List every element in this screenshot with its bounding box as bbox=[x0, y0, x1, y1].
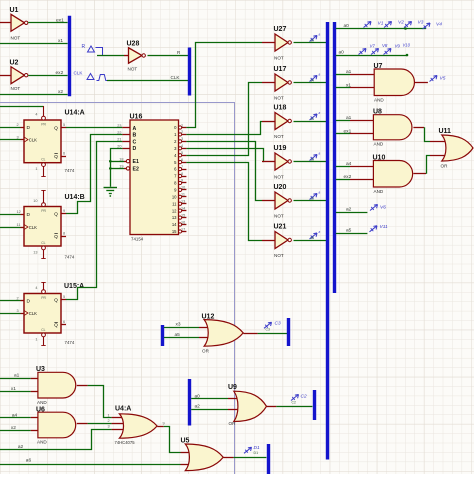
wire a2 right bbox=[336, 212, 368, 214]
wire R to U28 bbox=[97, 55, 129, 57]
svg-text:Q: Q bbox=[54, 126, 58, 132]
wire a0 second bbox=[336, 55, 407, 57]
svg-text:10: 10 bbox=[33, 199, 37, 203]
or-gate U5 bbox=[181, 438, 224, 471]
and-gate U7 bbox=[374, 63, 415, 103]
svg-text:14: 14 bbox=[172, 222, 177, 227]
wire a1 to U8 bbox=[336, 120, 374, 122]
svg-text:21: 21 bbox=[117, 138, 121, 142]
svg-text:a: a bbox=[319, 190, 321, 194]
net label ex1 bbox=[56, 18, 64, 24]
svg-text:CLK: CLK bbox=[171, 75, 181, 80]
svg-text:11: 11 bbox=[17, 223, 21, 227]
or-gate U9 bbox=[228, 384, 267, 426]
wire x1 to U7 bbox=[336, 87, 374, 89]
wire a4 bottom bbox=[0, 417, 38, 419]
net label x1 U7 bbox=[346, 82, 351, 88]
waveform symbol CLK trigger bbox=[87, 74, 94, 80]
svg-text:x1: x1 bbox=[58, 38, 63, 44]
svg-text:5: 5 bbox=[181, 151, 183, 155]
svg-text:2: 2 bbox=[181, 130, 183, 134]
svg-text:R: R bbox=[82, 44, 86, 50]
net label x2 top bbox=[58, 89, 63, 95]
net label CLK at bus bbox=[171, 75, 181, 80]
svg-text:U7: U7 bbox=[374, 63, 383, 70]
svg-text:AND: AND bbox=[37, 440, 47, 445]
svg-text:Q: Q bbox=[54, 211, 58, 217]
probe D1 bbox=[244, 445, 260, 455]
svg-text:a2: a2 bbox=[346, 207, 352, 213]
wire ex2 U2 output bbox=[28, 75, 67, 77]
svg-text:6: 6 bbox=[181, 158, 183, 162]
svg-text:s3: s3 bbox=[311, 158, 315, 162]
svg-text:U15:A: U15:A bbox=[64, 283, 84, 290]
wire a2 to U9 bbox=[191, 409, 242, 411]
wire U27 output to bus bbox=[294, 42, 327, 44]
junction a0 second bbox=[406, 54, 409, 57]
wire U12 output bbox=[243, 333, 287, 335]
probe V1 bbox=[364, 20, 384, 27]
svg-text:12: 12 bbox=[172, 208, 177, 213]
svg-text:4: 4 bbox=[35, 286, 37, 290]
ground symbol bbox=[104, 188, 118, 197]
svg-text:7474: 7474 bbox=[65, 168, 75, 173]
inverter U17 bbox=[274, 66, 292, 100]
svg-text:8: 8 bbox=[63, 231, 65, 235]
net label x3 bbox=[176, 322, 181, 328]
probe V4 bbox=[423, 21, 443, 29]
svg-text:AND: AND bbox=[37, 400, 47, 405]
svg-text:U9: U9 bbox=[228, 384, 237, 391]
wire ex1 U1 output bbox=[28, 22, 67, 24]
flip-flop U15:A bbox=[17, 282, 85, 346]
svg-text:4: 4 bbox=[35, 113, 37, 117]
svg-text:a5: a5 bbox=[346, 228, 352, 234]
wire U21 output to bus bbox=[294, 240, 327, 242]
inverter U2 bbox=[10, 60, 28, 91]
svg-text:18: 18 bbox=[119, 157, 123, 161]
wire out5 to U21 bbox=[186, 163, 275, 241]
svg-text:D1: D1 bbox=[254, 451, 259, 455]
svg-text:17: 17 bbox=[181, 227, 185, 231]
probe V8 bbox=[371, 43, 388, 55]
wire a1 bottom bbox=[0, 378, 38, 380]
net label a2 right bbox=[346, 207, 352, 213]
svg-text:V11: V11 bbox=[380, 224, 389, 230]
svg-text:a0: a0 bbox=[339, 50, 345, 56]
net label a4 U10 bbox=[346, 161, 352, 167]
svg-text:22: 22 bbox=[117, 131, 121, 135]
waveform CLK pulse bbox=[97, 75, 109, 81]
svg-text:U17: U17 bbox=[274, 66, 287, 73]
wire x1 bottom bbox=[0, 391, 38, 393]
wire U14:A Q to U16 A bbox=[66, 127, 122, 129]
svg-text:a: a bbox=[319, 111, 321, 115]
svg-text:x1: x1 bbox=[346, 82, 351, 88]
inverter U1 bbox=[10, 7, 28, 40]
svg-text:Q: Q bbox=[54, 234, 58, 240]
svg-text:4: 4 bbox=[181, 144, 183, 148]
svg-text:V8: V8 bbox=[382, 43, 388, 48]
inverter U21 bbox=[274, 224, 292, 258]
svg-text:C3: C3 bbox=[266, 328, 270, 332]
svg-text:ex2: ex2 bbox=[344, 174, 352, 180]
wire U14:A D input bbox=[0, 127, 21, 129]
probe V7 bbox=[359, 44, 376, 55]
demultiplexer U16 74154 bbox=[117, 114, 186, 242]
probe on U19 output bbox=[310, 151, 321, 161]
probe V9 bbox=[384, 43, 401, 54]
svg-text:U14:A: U14:A bbox=[65, 110, 85, 117]
svg-text:V9: V9 bbox=[395, 43, 401, 48]
net label x2 bottom bbox=[11, 425, 16, 431]
net label x1 bottom bbox=[11, 386, 16, 392]
probe V10 bbox=[403, 43, 411, 48]
svg-text:PR: PR bbox=[41, 122, 46, 126]
wire U9 output bbox=[267, 406, 313, 408]
svg-text:7474: 7474 bbox=[65, 340, 75, 345]
svg-text:U4:A: U4:A bbox=[115, 406, 131, 413]
svg-text:a2: a2 bbox=[18, 444, 24, 450]
or-gate U4:A bbox=[108, 406, 165, 446]
svg-text:U21: U21 bbox=[274, 224, 287, 231]
svg-text:U2: U2 bbox=[10, 60, 19, 67]
probe V6 bbox=[370, 205, 386, 211]
wire E2 bbox=[110, 168, 124, 170]
wire a0 first bbox=[336, 28, 426, 30]
svg-text:U8: U8 bbox=[373, 108, 382, 115]
svg-text:13: 13 bbox=[181, 200, 185, 204]
svg-text:9: 9 bbox=[181, 179, 183, 183]
and-gate U8 bbox=[373, 108, 412, 146]
wire U19 output to bus bbox=[294, 161, 327, 163]
net label ex2 U10 bbox=[344, 174, 352, 180]
or-gate U11 bbox=[439, 128, 474, 169]
net label R source bbox=[82, 44, 86, 50]
wire U6 output to U4 bbox=[77, 423, 126, 425]
svg-text:7474: 7474 bbox=[65, 254, 75, 259]
wire out2 to U20 bbox=[186, 142, 275, 201]
inverter U28 bbox=[127, 41, 146, 72]
junction E2 bbox=[109, 167, 112, 170]
probe C3 bbox=[264, 321, 281, 332]
svg-text:s1: s1 bbox=[311, 117, 315, 121]
svg-text:A: A bbox=[133, 126, 137, 132]
svg-text:s5: s5 bbox=[311, 236, 315, 240]
svg-text:x2: x2 bbox=[58, 89, 63, 95]
waveform symbol R trigger bbox=[88, 46, 95, 52]
svg-text:U19: U19 bbox=[274, 145, 287, 152]
svg-text:a0: a0 bbox=[344, 23, 350, 29]
svg-text:9: 9 bbox=[163, 421, 165, 425]
svg-text:CL: CL bbox=[41, 241, 45, 245]
svg-text:V4: V4 bbox=[436, 21, 442, 27]
svg-text:20: 20 bbox=[117, 144, 121, 148]
svg-text:D: D bbox=[27, 298, 31, 304]
svg-text:AND: AND bbox=[374, 189, 384, 194]
svg-text:NOT: NOT bbox=[128, 66, 138, 71]
net label a2 U9 bbox=[195, 404, 201, 410]
wire a0 to U9 bbox=[191, 398, 242, 400]
wire U15:A CLK input bbox=[0, 313, 21, 315]
wire U7 output bbox=[414, 82, 428, 84]
svg-text:C2: C2 bbox=[301, 394, 307, 400]
svg-text:13: 13 bbox=[172, 215, 177, 220]
svg-text:12: 12 bbox=[17, 210, 21, 214]
svg-text:a: a bbox=[319, 230, 321, 234]
wire U14:B D input bbox=[0, 214, 21, 216]
svg-text:U27: U27 bbox=[274, 26, 287, 33]
svg-text:x2: x2 bbox=[11, 425, 16, 431]
wire U14:B Q to U16 B bbox=[66, 135, 122, 214]
svg-text:CLK: CLK bbox=[74, 71, 84, 76]
svg-text:NOT: NOT bbox=[274, 253, 284, 258]
wire x2 top bbox=[0, 94, 68, 96]
svg-text:NOT: NOT bbox=[274, 95, 284, 100]
and-gate U10 bbox=[373, 154, 413, 194]
svg-text:V6: V6 bbox=[380, 205, 386, 211]
net label a0 first bbox=[344, 23, 350, 29]
net label ex1 U8 bbox=[344, 128, 352, 134]
svg-text:NOT: NOT bbox=[274, 174, 284, 179]
net label a1 bottom bbox=[14, 373, 20, 379]
wire CLK bbox=[107, 80, 188, 82]
wire E1 bbox=[110, 161, 124, 163]
wire out0 to U27 bbox=[186, 43, 275, 128]
svg-text:CL: CL bbox=[41, 158, 45, 162]
svg-text:D: D bbox=[27, 212, 31, 218]
svg-text:7: 7 bbox=[181, 165, 183, 169]
svg-text:1: 1 bbox=[108, 414, 110, 418]
wire a4 to U10 bbox=[336, 166, 374, 168]
wire U17 output to bus bbox=[294, 82, 327, 84]
svg-text:a0: a0 bbox=[195, 393, 201, 399]
bus bar left bbox=[68, 16, 71, 96]
probe on U21 output bbox=[310, 230, 321, 240]
net label a4 bottom bbox=[12, 412, 18, 418]
wire x3 to U12 bbox=[164, 327, 214, 329]
svg-text:74154: 74154 bbox=[131, 236, 144, 241]
wire ex1 to U8 bbox=[336, 133, 374, 135]
svg-text:a4: a4 bbox=[346, 161, 352, 167]
net label a5 U12 bbox=[175, 332, 181, 338]
svg-text:CL: CL bbox=[41, 328, 45, 332]
net label a0 second bbox=[339, 50, 345, 56]
svg-text:AND: AND bbox=[374, 142, 384, 147]
svg-text:a2: a2 bbox=[195, 404, 201, 410]
flip-flop U14:A bbox=[17, 106, 85, 177]
svg-text:ex1: ex1 bbox=[56, 18, 64, 24]
svg-text:a: a bbox=[319, 32, 321, 36]
wire a6 bbox=[0, 464, 193, 466]
svg-text:5: 5 bbox=[63, 295, 65, 299]
wire out3 to U19 bbox=[186, 149, 275, 162]
svg-text:V7: V7 bbox=[370, 44, 376, 49]
wire a2 to U4 bbox=[0, 430, 126, 450]
svg-text:23: 23 bbox=[117, 124, 121, 128]
svg-text:OR: OR bbox=[441, 164, 449, 169]
wire R U28 output bbox=[148, 55, 189, 57]
svg-text:3: 3 bbox=[17, 309, 19, 313]
svg-text:D: D bbox=[133, 146, 137, 152]
wire U15:A D input bbox=[0, 300, 21, 302]
svg-text:a6: a6 bbox=[26, 457, 32, 463]
svg-text:CLK: CLK bbox=[29, 137, 37, 142]
svg-text:U14:B: U14:B bbox=[65, 194, 85, 201]
svg-text:a: a bbox=[319, 151, 321, 155]
svg-text:PR: PR bbox=[41, 296, 46, 300]
wire ex2 to U10 bbox=[336, 179, 374, 181]
wire a1 to U7 bbox=[336, 74, 374, 76]
flip-flop U14:B bbox=[17, 190, 85, 259]
svg-text:a1: a1 bbox=[14, 373, 20, 379]
svg-text:E1: E1 bbox=[133, 159, 139, 165]
svg-text:1: 1 bbox=[181, 123, 183, 127]
probe on U17 output bbox=[310, 72, 321, 82]
svg-text:ex2: ex2 bbox=[56, 70, 64, 76]
svg-text:NOT: NOT bbox=[274, 213, 284, 218]
svg-text:9: 9 bbox=[63, 209, 65, 213]
net label x1 top bbox=[58, 38, 63, 44]
svg-text:a1: a1 bbox=[346, 69, 352, 75]
svg-text:U18: U18 bbox=[274, 105, 287, 112]
wire U18 output to bus bbox=[294, 121, 327, 123]
svg-text:s2: s2 bbox=[311, 197, 315, 201]
and-gate U6 bbox=[36, 407, 76, 445]
net label ex2 bbox=[56, 70, 64, 76]
bus bar C2 bbox=[313, 390, 316, 420]
wire a5 to U12 bbox=[164, 337, 214, 339]
svg-text:U11: U11 bbox=[439, 128, 452, 135]
net label a1 U7 bbox=[346, 69, 352, 75]
svg-text:V1: V1 bbox=[378, 20, 384, 26]
probe on U20 output bbox=[310, 190, 321, 200]
svg-text:AND: AND bbox=[374, 98, 384, 103]
svg-text:3: 3 bbox=[17, 135, 19, 139]
bus bar C3 bbox=[287, 318, 290, 346]
svg-text:a4: a4 bbox=[12, 412, 18, 418]
svg-text:x3: x3 bbox=[176, 322, 181, 328]
svg-text:E2: E2 bbox=[133, 166, 139, 172]
svg-text:2: 2 bbox=[17, 296, 19, 300]
svg-text:a1: a1 bbox=[346, 115, 352, 121]
svg-text:CLK: CLK bbox=[29, 311, 37, 316]
junction a0 bbox=[404, 27, 407, 30]
svg-text:16: 16 bbox=[181, 220, 185, 224]
svg-text:U5: U5 bbox=[181, 438, 190, 445]
probe V11 bbox=[370, 224, 389, 232]
wire U10 output to U11 bbox=[413, 156, 448, 174]
svg-text:C2: C2 bbox=[292, 401, 296, 405]
svg-text:B: B bbox=[133, 133, 137, 139]
svg-text:8: 8 bbox=[181, 172, 183, 176]
svg-text:x1: x1 bbox=[11, 386, 16, 392]
svg-text:14: 14 bbox=[181, 206, 185, 210]
svg-text:11: 11 bbox=[172, 201, 177, 206]
wire U16 D input net bbox=[111, 149, 123, 187]
svg-text:13: 13 bbox=[33, 251, 37, 255]
svg-text:ex1: ex1 bbox=[344, 128, 352, 134]
wire U15:A Q to U16 C bbox=[66, 142, 122, 300]
wire U1 input bbox=[0, 22, 11, 24]
svg-text:10: 10 bbox=[172, 194, 177, 199]
svg-text:2: 2 bbox=[108, 419, 110, 423]
svg-text:V5: V5 bbox=[440, 76, 446, 82]
svg-text:6: 6 bbox=[63, 320, 65, 324]
svg-text:a5: a5 bbox=[175, 332, 181, 338]
bus bar main left bbox=[326, 22, 329, 460]
svg-text:NOT: NOT bbox=[11, 35, 21, 40]
svg-text:Q: Q bbox=[54, 154, 58, 160]
probe V2 bbox=[384, 19, 404, 27]
svg-text:D1: D1 bbox=[254, 445, 260, 451]
and-gate U3 bbox=[36, 366, 76, 405]
net label a2 bottom bbox=[18, 444, 24, 450]
svg-text:D: D bbox=[27, 125, 31, 131]
wire U14:A preset bbox=[0, 106, 44, 108]
svg-text:1: 1 bbox=[35, 338, 37, 342]
svg-text:74HC4075: 74HC4075 bbox=[115, 440, 136, 445]
svg-text:U1: U1 bbox=[10, 7, 19, 14]
inverter U20 bbox=[274, 184, 292, 218]
wire out4 to U17 bbox=[186, 83, 275, 156]
probe C2 bbox=[291, 394, 307, 405]
svg-text:2: 2 bbox=[17, 123, 19, 127]
svg-text:OR: OR bbox=[202, 349, 210, 354]
wire x1 top bbox=[0, 43, 68, 45]
probe V5 bbox=[430, 76, 446, 82]
probe on U18 output bbox=[310, 111, 321, 121]
bus bar main right bbox=[333, 22, 336, 293]
svg-text:Q: Q bbox=[54, 323, 58, 329]
sheet boundary line bbox=[0, 103, 235, 475]
svg-text:PR: PR bbox=[41, 209, 46, 213]
svg-text:11: 11 bbox=[181, 193, 185, 197]
svg-text:3: 3 bbox=[108, 425, 110, 429]
svg-text:U16: U16 bbox=[130, 114, 143, 121]
svg-text:6: 6 bbox=[63, 151, 65, 155]
net label a5 right bbox=[346, 228, 352, 234]
svg-text:OR: OR bbox=[229, 421, 237, 426]
svg-text:15: 15 bbox=[181, 213, 185, 217]
wire U20 output to bus bbox=[294, 200, 327, 202]
wire U14:A CLK input bbox=[0, 139, 21, 141]
svg-text:15: 15 bbox=[172, 229, 177, 234]
bus bar R CLK bbox=[188, 48, 191, 96]
svg-text:V2: V2 bbox=[398, 19, 404, 25]
inverter U19 bbox=[274, 145, 292, 179]
svg-text:U12: U12 bbox=[202, 313, 215, 320]
wire U5 output bbox=[223, 457, 266, 459]
wire U3 output to U4 bbox=[77, 386, 126, 418]
wire U4 output to U5 bbox=[157, 427, 193, 453]
svg-text:s4: s4 bbox=[311, 79, 315, 83]
probe V3 bbox=[404, 20, 424, 28]
svg-text:a: a bbox=[319, 72, 321, 76]
svg-text:V3: V3 bbox=[418, 20, 424, 26]
wire x2 bottom bbox=[0, 430, 38, 432]
net label a0 U9 bbox=[195, 393, 201, 399]
svg-text:V10: V10 bbox=[403, 43, 411, 48]
svg-text:U20: U20 bbox=[274, 184, 287, 191]
wire U14:B CLK input bbox=[0, 227, 21, 229]
or-gate U12 bbox=[202, 313, 244, 353]
svg-text:NOT: NOT bbox=[11, 86, 21, 91]
svg-text:1: 1 bbox=[35, 167, 37, 171]
wire U8 output to U11 bbox=[413, 127, 448, 141]
svg-text:C3: C3 bbox=[275, 321, 281, 327]
inverter U27 bbox=[274, 26, 292, 60]
